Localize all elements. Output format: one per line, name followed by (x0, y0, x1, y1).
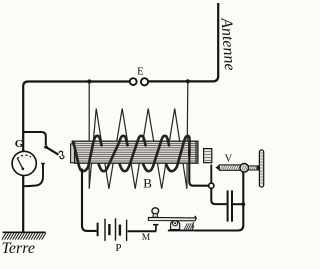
wire: coherer node down to capacitor (211, 188, 226, 204)
switch pivot dot (44, 145, 48, 149)
coil B primary zigzag winding (89, 81, 188, 188)
svg-text:P: P (115, 242, 121, 254)
plate (terminal bar) (97, 223, 99, 237)
contact cap (153, 224, 158, 226)
tube pointed electrode (215, 165, 219, 170)
wire: coherer node up to tube (210, 165, 212, 184)
knob stem (153, 214, 158, 217)
spark gap E: right ball (141, 78, 148, 85)
cylinder left end cap (71, 144, 75, 163)
node: capacitor/riser junction (241, 202, 245, 206)
plate short thick 2 (119, 225, 121, 236)
node: antenna/coil junction (186, 79, 190, 83)
wire: battery to key M contact (128, 230, 157, 232)
pivot (173, 221, 178, 226)
base wire under key (168, 229, 196, 231)
wire: galvanometer to ground (22, 176, 24, 233)
plate tall 3 (126, 220, 128, 241)
wire: shunt loop top (to switch) (23, 132, 46, 145)
ball (240, 164, 249, 173)
coherer V assembly (204, 149, 264, 187)
pivot stand (171, 221, 180, 230)
handle bar (259, 150, 263, 187)
wire: helix left lead down to battery (82, 169, 97, 231)
wire: antenna lead (vertical, curving into top horizontal) (148, 3, 218, 81)
galvanometer G (12, 151, 36, 175)
wire: helix right lead down to coherer node (189, 150, 208, 186)
spring (184, 223, 194, 229)
spark gap E: left ball (130, 78, 137, 85)
svg-text:E: E (137, 66, 143, 77)
terminal block (204, 149, 212, 163)
switch clip squiggle (59, 151, 64, 159)
switch lower contact stub and wire back to main line (24, 164, 43, 187)
wire: key base to right riser (195, 172, 244, 231)
plate tall 1 (104, 219, 106, 241)
node: left coil junction (87, 79, 91, 83)
screw shaft (249, 166, 259, 170)
capacitor: right plate (231, 190, 233, 221)
G needle (17, 158, 23, 169)
ground (earth) symbol (3, 231, 46, 233)
coil B former: cylinder body (71, 141, 198, 163)
svg-text:M: M (142, 233, 151, 243)
knob (152, 208, 159, 214)
switch lower contact cap (41, 163, 45, 165)
svg-text:V: V (225, 153, 233, 164)
battery P (98, 218, 127, 241)
wire: top horizontal left segment and left riser down to ground branch (23, 82, 130, 152)
capacitor: left plate (227, 190, 229, 221)
node: coherer left terminal (open circle) (209, 183, 214, 188)
svg-text:Terre: Terre (2, 240, 36, 257)
tube body (219, 165, 240, 170)
G scale (dashed arc) (17, 155, 31, 159)
svg-text:G: G (15, 138, 24, 150)
cylinder right end cap (195, 142, 197, 164)
switch arm (46, 147, 58, 155)
key M (tapper) (148, 208, 196, 231)
coil B secondary helix winding (73, 136, 190, 171)
lever bar (148, 216, 196, 221)
plate short thick 1 (108, 224, 110, 235)
svg-text:B: B (143, 175, 152, 190)
wire: capacitor right plate to riser (233, 203, 243, 205)
contact post (155, 225, 157, 231)
plate tall 2 (115, 218, 117, 240)
